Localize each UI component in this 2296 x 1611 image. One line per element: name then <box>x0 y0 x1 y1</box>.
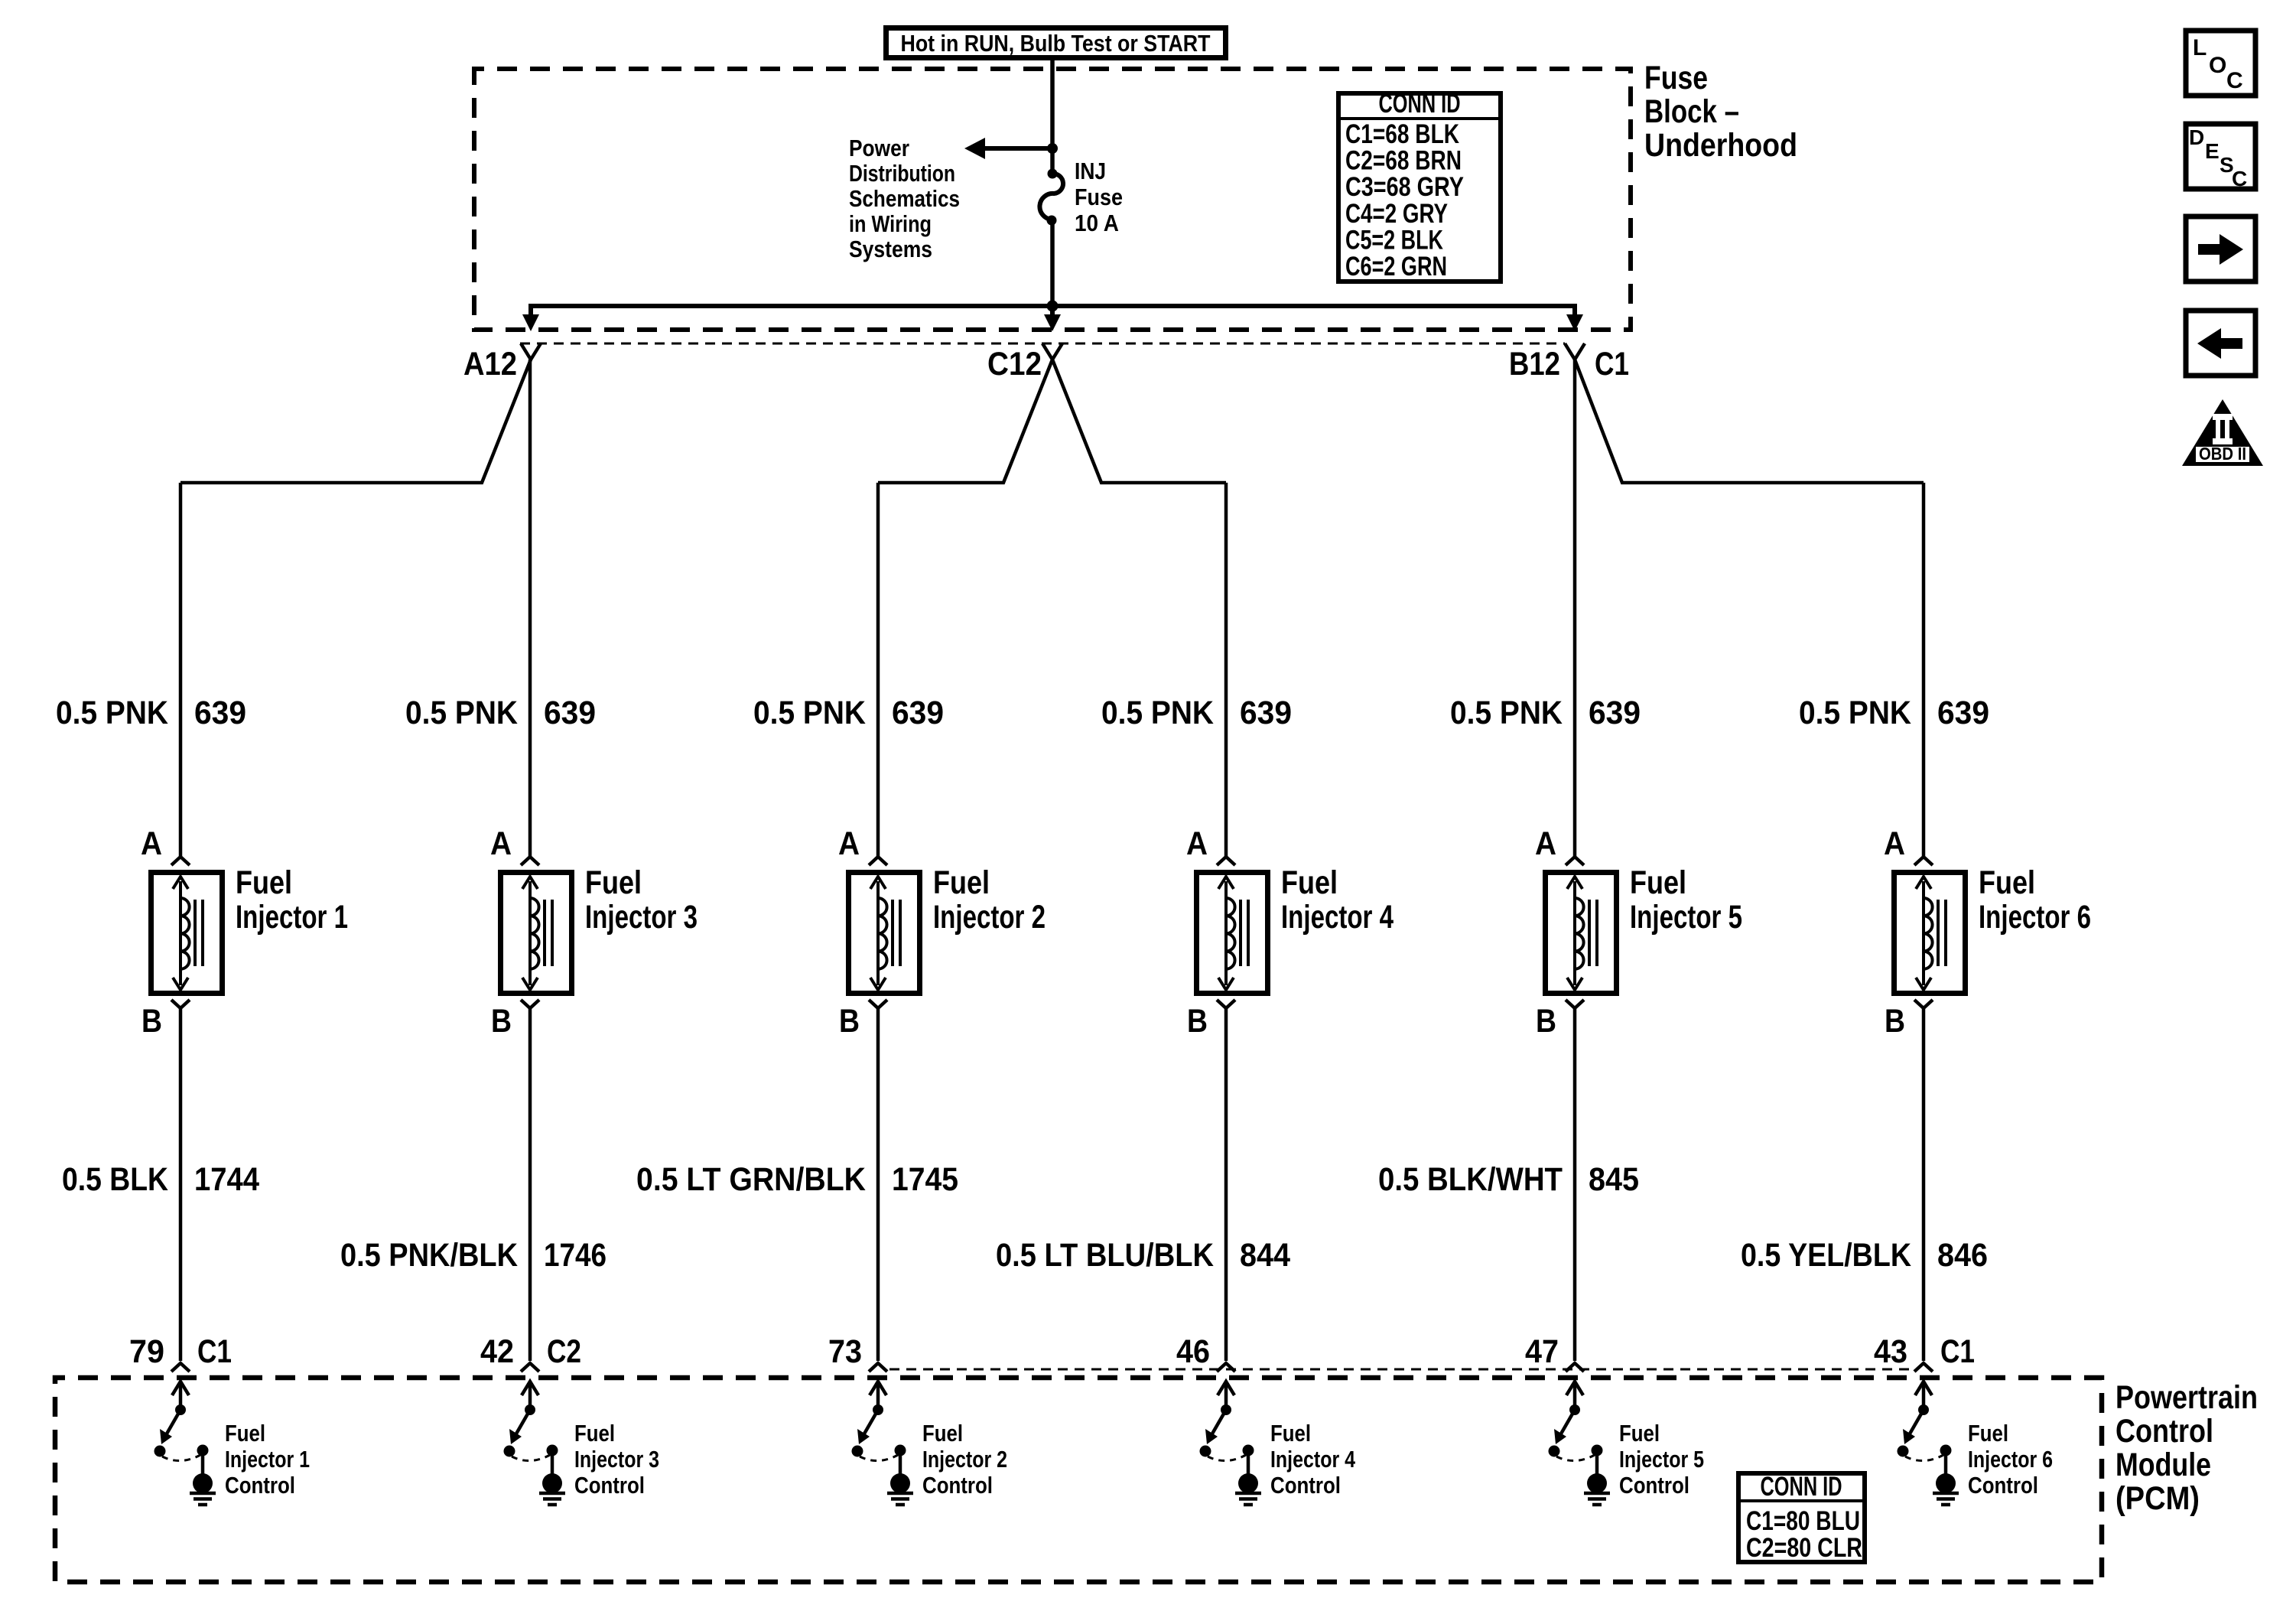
node: PCM connector label C1 (col 6) <box>1940 1333 1975 1370</box>
svg-text:Fuse: Fuse <box>1644 60 1708 96</box>
node: pin A label (injector 3) <box>490 825 512 862</box>
wire: injector 4 control to PCM <box>1224 1008 1228 1361</box>
svg-text:A: A <box>838 825 860 862</box>
ground: injector 3 driver ground <box>539 1473 565 1505</box>
node: pin A terminal of injector 6 <box>1914 857 1933 865</box>
svg-text:46: 46 <box>1176 1333 1210 1370</box>
node: wire label 0.5 LT GRN/BLK / 1745 <box>636 1161 958 1198</box>
node: wire label 0.5 BLK / 1744 <box>62 1161 259 1198</box>
svg-text:10 A: 10 A <box>1075 210 1119 236</box>
node: pin B terminal of injector 1 <box>171 1000 190 1008</box>
svg-text:C5=2 BLK: C5=2 BLK <box>1345 225 1443 255</box>
node: label C1 (fuse block) <box>1595 346 1629 382</box>
svg-text:Injector 5: Injector 5 <box>1619 1446 1704 1473</box>
wire: 0.5 PNK 639 feed to injector 4 <box>1224 483 1228 856</box>
node: PCM terminal pin 43 <box>1914 1363 1933 1372</box>
transistor: fuel injector 3 driver switch <box>504 1382 558 1476</box>
svg-text:47: 47 <box>1525 1333 1559 1370</box>
svg-text:L: L <box>2193 35 2207 60</box>
svg-text:Block –: Block – <box>1644 93 1739 130</box>
component: fuel injector 4 <box>1197 873 1268 994</box>
node: pin B label (injector 5) <box>1536 1003 1556 1040</box>
node: pin A label (injector 4) <box>1186 825 1208 862</box>
svg-text:Injector 3: Injector 3 <box>574 1446 659 1473</box>
node: label C12 <box>987 346 1042 382</box>
svg-text:42: 42 <box>480 1333 514 1370</box>
component: fuel injector 6 <box>1894 873 1966 994</box>
svg-text:73: 73 <box>828 1333 862 1370</box>
svg-text:Fuel: Fuel <box>225 1420 265 1447</box>
svg-text:Injector 6: Injector 6 <box>1979 899 2091 936</box>
svg-text:O: O <box>2209 53 2226 78</box>
node: fuse block connector interface (dashed) <box>520 343 1565 345</box>
wire: injector 1 control to PCM <box>179 1008 183 1361</box>
svg-text:0.5 PNK: 0.5 PNK <box>1450 695 1563 731</box>
svg-text:Fuel: Fuel <box>585 864 642 901</box>
svg-text:C1: C1 <box>197 1333 232 1370</box>
svg-text:B: B <box>1536 1003 1556 1040</box>
node: Powertrain Control Module (PCM) label <box>2116 1379 2258 1517</box>
wire: arrow into connector C12 <box>1044 314 1061 331</box>
svg-text:639: 639 <box>544 695 596 731</box>
node: PCM pin number 46 <box>1176 1333 1210 1370</box>
node: pin A terminal of injector 2 <box>869 857 887 865</box>
svg-text:Fuel: Fuel <box>1968 1420 2008 1447</box>
node: PCM connector label C1 (col 1) <box>197 1333 232 1370</box>
node: pin A terminal of injector 1 <box>171 857 190 865</box>
svg-text:Injector 2: Injector 2 <box>933 899 1046 936</box>
svg-text:B: B <box>491 1003 512 1040</box>
svg-text:C4=2 GRY: C4=2 GRY <box>1345 199 1448 229</box>
svg-text:0.5 LT BLU/BLK: 0.5 LT BLU/BLK <box>996 1237 1214 1274</box>
node: Fuel Injector 6 Control label <box>1968 1420 2053 1499</box>
node: injector 2 name label <box>933 864 1046 936</box>
node: OBD II icon <box>2182 399 2263 466</box>
node: pin B label (injector 3) <box>491 1003 512 1040</box>
node: Fuel Injector 4 Control label <box>1270 1420 1356 1499</box>
wire: hot feed from box to INJ fuse <box>1050 58 1055 174</box>
ground: injector 2 driver ground <box>887 1473 913 1505</box>
svg-text:(PCM): (PCM) <box>2116 1480 2200 1517</box>
svg-text:B: B <box>141 1003 162 1040</box>
svg-text:Control: Control <box>1619 1472 1689 1499</box>
node: PCM pin number 47 <box>1525 1333 1559 1370</box>
wire: arrow to Power Distribution Schematics <box>964 138 1052 159</box>
svg-text:Fuel: Fuel <box>236 864 292 901</box>
svg-text:Hot in RUN, Bulb Test or START: Hot in RUN, Bulb Test or START <box>901 30 1211 57</box>
node: pin B label (injector 4) <box>1187 1003 1208 1040</box>
node: PCM connector C1 interface (dashed) <box>889 1369 1913 1371</box>
svg-text:B: B <box>839 1003 860 1040</box>
svg-text:Fuel: Fuel <box>922 1420 963 1447</box>
svg-text:C1: C1 <box>1940 1333 1975 1370</box>
component: fuel injector 5 <box>1546 873 1617 994</box>
node: INJ Fuse 10 A label <box>1075 158 1123 236</box>
node: pin B terminal of injector 6 <box>1914 1000 1933 1008</box>
svg-text:Injector 2: Injector 2 <box>922 1446 1007 1473</box>
svg-text:A: A <box>1884 825 1905 862</box>
svg-text:Injector 1: Injector 1 <box>236 899 348 936</box>
node: Fuel Injector 2 Control label <box>922 1420 1007 1499</box>
node: wire label 0.5 PNK / 639 (col 3) <box>753 695 944 731</box>
svg-text:Fuel: Fuel <box>1270 1420 1311 1447</box>
svg-text:E: E <box>2205 139 2220 163</box>
svg-text:Fuel: Fuel <box>1281 864 1338 901</box>
svg-text:Fuel: Fuel <box>1979 864 2035 901</box>
node: LOC icon <box>2186 31 2255 96</box>
node: back arrow icon <box>2186 311 2255 376</box>
svg-text:1746: 1746 <box>544 1237 607 1274</box>
svg-text:Control: Control <box>574 1472 645 1499</box>
node: DESC icon <box>2186 124 2255 190</box>
node: injector 3 name label <box>585 864 698 936</box>
node: PCM pin number 42 <box>480 1333 514 1370</box>
node: wire label 0.5 BLK/WHT / 845 <box>1378 1161 1639 1198</box>
node: PCM pin number 79 <box>129 1333 164 1370</box>
svg-text:0.5 PNK: 0.5 PNK <box>405 695 518 731</box>
node: wire label 0.5 YEL/BLK / 846 <box>1741 1237 1988 1274</box>
node: Fuel Injector 3 Control label <box>574 1420 659 1499</box>
node: PCM terminal pin 79 <box>171 1363 190 1372</box>
svg-text:639: 639 <box>892 695 944 731</box>
svg-text:Control: Control <box>1968 1472 2038 1499</box>
svg-text:C12: C12 <box>987 346 1042 382</box>
node: Fuel Injector 1 Control label <box>225 1420 310 1499</box>
svg-text:A12: A12 <box>463 346 517 382</box>
svg-text:C: C <box>2226 68 2243 93</box>
node: PCM terminal pin 73 <box>869 1363 887 1372</box>
svg-text:0.5 PNK: 0.5 PNK <box>1101 695 1214 731</box>
svg-text:B: B <box>1187 1003 1208 1040</box>
node: wire label 0.5 PNK / 639 (col 6) <box>1799 695 1989 731</box>
node: bus junction dot <box>1047 301 1059 312</box>
node: Hot in RUN, Bulb Test or START box <box>886 28 1226 58</box>
svg-text:0.5 BLK: 0.5 BLK <box>62 1161 168 1198</box>
wire: A12 branch diagonal <box>180 360 531 483</box>
svg-text:639: 639 <box>1937 695 1989 731</box>
svg-text:OBD II: OBD II <box>2199 444 2246 464</box>
fuse: INJ Fuse 10 A <box>1039 169 1063 226</box>
node: pin A label (injector 5) <box>1535 825 1556 862</box>
svg-text:Underhood: Underhood <box>1644 127 1797 164</box>
svg-text:0.5 PNK: 0.5 PNK <box>753 695 866 731</box>
transistor: fuel injector 4 driver switch <box>1200 1382 1254 1476</box>
node: Fuel Injector 5 Control label <box>1619 1420 1704 1499</box>
node: PCM terminal pin 47 <box>1566 1363 1584 1372</box>
wire: 0.5 PNK 639 feed to injector 5 <box>1573 360 1577 856</box>
svg-text:844: 844 <box>1240 1237 1290 1274</box>
node: label B12 <box>1509 346 1560 382</box>
svg-text:1744: 1744 <box>194 1161 259 1198</box>
svg-text:0.5 PNK: 0.5 PNK <box>56 695 168 731</box>
node: CONN ID table (fuse block underhood) <box>1338 89 1501 282</box>
node: pin A terminal of injector 4 <box>1217 857 1235 865</box>
wire: arrow into connector A12 <box>522 314 539 331</box>
svg-text:C6=2 GRN: C6=2 GRN <box>1345 252 1447 282</box>
wire: 0.5 PNK 639 feed to injector 3 <box>528 360 532 856</box>
wire: injector 3 control to PCM <box>528 1008 532 1361</box>
node: injector 5 name label <box>1630 864 1742 936</box>
node: wire label 0.5 LT BLU/BLK / 844 <box>996 1237 1290 1274</box>
svg-text:0.5 PNK/BLK: 0.5 PNK/BLK <box>340 1237 518 1274</box>
svg-text:INJ: INJ <box>1075 158 1106 184</box>
svg-text:Fuse: Fuse <box>1075 184 1123 210</box>
svg-text:D: D <box>2189 125 2204 149</box>
wire: C1 branch diagonal <box>1575 360 1924 483</box>
svg-text:0.5 PNK: 0.5 PNK <box>1799 695 1911 731</box>
wire: 0.5 PNK 639 feed to injector 1 <box>179 483 183 856</box>
node: injector 1 name label <box>236 864 348 936</box>
svg-text:A: A <box>490 825 512 862</box>
svg-text:Injector 4: Injector 4 <box>1281 899 1394 936</box>
node: label A12 <box>463 346 517 382</box>
svg-text:Control: Control <box>922 1472 993 1499</box>
node: connector terminal A12 <box>521 343 541 360</box>
wire: injector 6 control to PCM <box>1922 1008 1926 1361</box>
svg-text:43: 43 <box>1874 1333 1907 1370</box>
svg-text:Power: Power <box>849 135 909 161</box>
wire: fuse to bus <box>1050 220 1055 306</box>
node: pin B label (injector 6) <box>1885 1003 1905 1040</box>
svg-text:B12: B12 <box>1509 346 1560 382</box>
ground: injector 5 driver ground <box>1584 1473 1610 1505</box>
node: CONN ID table (PCM) <box>1738 1472 1865 1563</box>
svg-text:in Wiring: in Wiring <box>849 210 932 237</box>
svg-text:Fuel: Fuel <box>1619 1420 1660 1447</box>
svg-text:0.5 BLK/WHT: 0.5 BLK/WHT <box>1378 1161 1563 1198</box>
node: injector 6 name label <box>1979 864 2091 936</box>
svg-text:C3=68 GRY: C3=68 GRY <box>1345 172 1464 202</box>
svg-text:Systems: Systems <box>849 236 932 262</box>
transistor: fuel injector 1 driver switch <box>154 1382 209 1476</box>
node: pin B terminal of injector 3 <box>521 1000 539 1008</box>
node: pin B label (injector 2) <box>839 1003 860 1040</box>
transistor: fuel injector 2 driver switch <box>852 1382 906 1476</box>
node: forward arrow icon <box>2186 216 2255 282</box>
node: Power Distribution Schematics in Wiring Systems label <box>849 135 960 262</box>
node: PCM terminal pin 42 <box>521 1363 539 1372</box>
svg-text:Control: Control <box>1270 1472 1341 1499</box>
wire: arrow into connector B12 <box>1566 314 1583 331</box>
node: pin A terminal of injector 3 <box>521 857 539 865</box>
ground: injector 1 driver ground <box>190 1473 216 1505</box>
wire: injector 5 control to PCM <box>1573 1008 1577 1361</box>
svg-text:Fuel: Fuel <box>1630 864 1686 901</box>
svg-text:845: 845 <box>1589 1161 1639 1198</box>
svg-text:0.5 LT GRN/BLK: 0.5 LT GRN/BLK <box>636 1161 866 1198</box>
svg-text:Injector 1: Injector 1 <box>225 1446 310 1473</box>
svg-text:C2: C2 <box>547 1333 581 1370</box>
svg-text:C1=80 BLU: C1=80 BLU <box>1746 1506 1860 1536</box>
svg-text:Control: Control <box>2116 1413 2213 1450</box>
node: PCM pin number 43 <box>1874 1333 1907 1370</box>
svg-text:Schematics: Schematics <box>849 185 960 212</box>
node: connector terminal B12 <box>1565 343 1585 360</box>
wire: distribution bus inside fuse block <box>531 306 1575 324</box>
wire: 0.5 PNK 639 feed to injector 6 <box>1922 483 1926 856</box>
svg-text:Injector 6: Injector 6 <box>1968 1446 2053 1473</box>
node: PCM dashed box <box>55 1378 2102 1582</box>
svg-text:CONN ID: CONN ID <box>1761 1472 1842 1502</box>
svg-text:Injector 3: Injector 3 <box>585 899 698 936</box>
transistor: fuel injector 5 driver switch <box>1549 1382 1603 1476</box>
svg-text:Injector 4: Injector 4 <box>1270 1446 1356 1473</box>
node: pin A label (injector 1) <box>141 825 162 862</box>
node: junction dot at power dist tap <box>1047 143 1058 154</box>
svg-text:C2=68 BRN: C2=68 BRN <box>1345 146 1462 176</box>
node: wire label 0.5 PNK / 639 (col 1) <box>56 695 246 731</box>
node: pin A label (injector 2) <box>838 825 860 862</box>
svg-text:Distribution: Distribution <box>849 160 955 187</box>
node: pin B label (injector 1) <box>141 1003 162 1040</box>
node: pin A terminal of injector 5 <box>1566 857 1584 865</box>
component: fuel injector 3 <box>501 873 572 994</box>
node: pin B terminal of injector 5 <box>1566 1000 1584 1008</box>
wire: 0.5 PNK 639 feed to injector 2 <box>876 483 880 856</box>
svg-text:Fuel: Fuel <box>933 864 990 901</box>
svg-text:639: 639 <box>194 695 246 731</box>
svg-text:639: 639 <box>1240 695 1292 731</box>
node: PCM connector label C2 (col 2) <box>547 1333 581 1370</box>
svg-text:Module: Module <box>2116 1447 2211 1483</box>
wire: C12 branch diagonal right <box>1052 360 1226 483</box>
wire: injector 2 control to PCM <box>876 1008 880 1361</box>
svg-text:C1: C1 <box>1595 346 1629 382</box>
node: wire label 0.5 PNK / 639 (col 2) <box>405 695 596 731</box>
fuse block underhood dashed box <box>474 69 1631 330</box>
svg-text:A: A <box>141 825 162 862</box>
svg-text:0.5 YEL/BLK: 0.5 YEL/BLK <box>1741 1237 1911 1274</box>
svg-text:Control: Control <box>225 1472 295 1499</box>
ground: injector 4 driver ground <box>1235 1473 1261 1505</box>
svg-text:B: B <box>1885 1003 1905 1040</box>
node: injector 4 name label <box>1281 864 1394 936</box>
component: fuel injector 2 <box>849 873 920 994</box>
svg-text:79: 79 <box>129 1333 164 1370</box>
node: connector terminal C12 <box>1042 343 1062 360</box>
node: wire label 0.5 PNK / 639 (col 4) <box>1101 695 1292 731</box>
wire: C12 branch diagonal left <box>878 360 1052 483</box>
svg-text:639: 639 <box>1589 695 1641 731</box>
svg-text:C2=80 CLR: C2=80 CLR <box>1746 1533 1862 1563</box>
svg-text:A: A <box>1535 825 1556 862</box>
node: pin A label (injector 6) <box>1884 825 1905 862</box>
node: PCM pin number 73 <box>828 1333 862 1370</box>
svg-text:CONN ID: CONN ID <box>1379 89 1461 119</box>
svg-text:C1=68 BLK: C1=68 BLK <box>1345 119 1459 149</box>
node: pin B terminal of injector 4 <box>1217 1000 1235 1008</box>
svg-text:Powertrain: Powertrain <box>2116 1379 2258 1416</box>
svg-text:1745: 1745 <box>892 1161 958 1198</box>
transistor: fuel injector 6 driver switch <box>1898 1382 1952 1476</box>
node: wire label 0.5 PNK / 639 (col 5) <box>1450 695 1641 731</box>
svg-text:Injector 5: Injector 5 <box>1630 899 1742 936</box>
node: wire label 0.5 PNK/BLK / 1746 <box>340 1237 607 1274</box>
svg-text:A: A <box>1186 825 1208 862</box>
ground: injector 6 driver ground <box>1933 1473 1959 1505</box>
node: Fuse Block - Underhood label <box>1644 60 1797 164</box>
node: PCM terminal pin 46 <box>1217 1363 1235 1372</box>
component: fuel injector 1 <box>151 873 223 994</box>
node: pin B terminal of injector 2 <box>869 1000 887 1008</box>
svg-text:C: C <box>2232 167 2247 190</box>
svg-text:Fuel: Fuel <box>574 1420 615 1447</box>
svg-text:846: 846 <box>1937 1237 1988 1274</box>
